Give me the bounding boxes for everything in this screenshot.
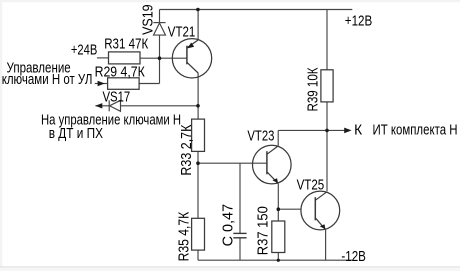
wire R39 top lead from +12V rail bbox=[326, 10, 328, 70]
wire output net to arrow bbox=[278, 129, 345, 131]
svg-text:+12В: +12В bbox=[345, 13, 372, 30]
node junction VS17 net / collector line bbox=[196, 104, 200, 108]
wire R37 bottom lead bbox=[277, 253, 279, 261]
wire +12V rail top bbox=[160, 9, 353, 11]
svg-text:VT21: VT21 bbox=[168, 24, 196, 41]
wire R29 input lead bbox=[95, 83, 108, 85]
wire R31 left lead bbox=[97, 57, 109, 59]
diode VS17 bbox=[109, 100, 120, 111]
node junction R39 / output net bbox=[325, 129, 329, 133]
svg-text:R29 4,7К: R29 4,7К bbox=[95, 64, 145, 81]
wire VS19 anode/cathode vertical bbox=[159, 10, 161, 84]
svg-text:R35 4,7К: R35 4,7К bbox=[176, 212, 193, 262]
svg-text:VS19: VS19 bbox=[140, 4, 157, 35]
svg-text:-12В: -12В bbox=[341, 248, 366, 265]
wire R33 bottom to R35 top bbox=[197, 151, 199, 218]
diode VS19 bbox=[153, 23, 165, 35]
resistor R31 bbox=[109, 52, 141, 64]
wire VT25 emitter down to -12V rail bbox=[325, 230, 327, 261]
svg-text:ИТ комплекта Н: ИТ комплекта Н bbox=[373, 122, 458, 139]
wire VT21 collector down to R33 bbox=[197, 73, 199, 119]
wire R35 bottom to -12V rail bbox=[197, 250, 199, 260]
wire R31 right lead / VT21 base lead bbox=[140, 57, 187, 59]
wire VT23 collector up to output net bbox=[277, 130, 279, 145]
node junction R31 / VS19 / base bbox=[158, 56, 162, 60]
wire VT21 emitter to top rail bbox=[197, 10, 199, 41]
transistor VT23 (NPN) bbox=[252, 145, 291, 184]
svg-text:R39 10К: R39 10К bbox=[304, 67, 321, 111]
svg-text:R31 47К: R31 47К bbox=[104, 36, 148, 53]
resistor R35 bbox=[192, 218, 205, 250]
svg-text:R33 2,7К: R33 2,7К bbox=[178, 124, 195, 175]
frame border bbox=[0, 0, 460, 2]
node junction top rail / VT21 emitter bbox=[196, 8, 200, 12]
svg-text:К: К bbox=[354, 122, 362, 139]
svg-text:VT23: VT23 bbox=[247, 127, 274, 144]
svg-text:в ДТ и ПХ: в ДТ и ПХ bbox=[49, 125, 103, 142]
arrow output К ИТ (right) bbox=[344, 128, 351, 134]
wire VT23 emitter down to R37 bbox=[277, 184, 279, 221]
svg-text:+24В: +24В bbox=[71, 42, 97, 59]
wire VS17 horizontal net bbox=[95, 105, 198, 107]
resistor R37 bbox=[272, 221, 285, 253]
capacitor C 0,47 bbox=[233, 233, 246, 237]
svg-text:C 0,47: C 0,47 bbox=[220, 204, 237, 247]
wire R29 right lead bbox=[139, 83, 159, 85]
node junction R33 bottom / VT23 base bbox=[196, 161, 200, 165]
svg-text:VS17: VS17 bbox=[103, 88, 131, 105]
wire R39 bottom lead to output net bbox=[326, 102, 328, 130]
resistor R39 bbox=[321, 70, 333, 102]
wire -12V bottom rail bbox=[198, 259, 353, 261]
svg-text:ключами Н от УЛ: ключами Н от УЛ bbox=[2, 71, 93, 88]
wire capacitor C bottom lead bbox=[239, 238, 241, 260]
wire VT23 base lead from R33 node bbox=[198, 162, 267, 164]
wire VT25 base lead bbox=[278, 208, 301, 210]
wire capacitor C top branch bbox=[239, 163, 241, 233]
arrow VS17 output (left) bbox=[95, 103, 102, 108]
arrow input to R29 bbox=[98, 81, 105, 86]
resistor R33 bbox=[192, 119, 205, 151]
node junction VT23 emitter / VT25 base bbox=[277, 207, 281, 211]
transistor VT25 (NPN) bbox=[301, 191, 340, 230]
transistor VT21 (PNP) bbox=[172, 39, 211, 78]
wire output net down to VT25 collector bbox=[326, 130, 328, 191]
svg-text:VT25: VT25 bbox=[297, 176, 325, 193]
node junction R37 / -12V rail bbox=[277, 259, 280, 262]
resistor R29 bbox=[108, 78, 140, 90]
svg-text:R37 150: R37 150 bbox=[255, 206, 272, 255]
